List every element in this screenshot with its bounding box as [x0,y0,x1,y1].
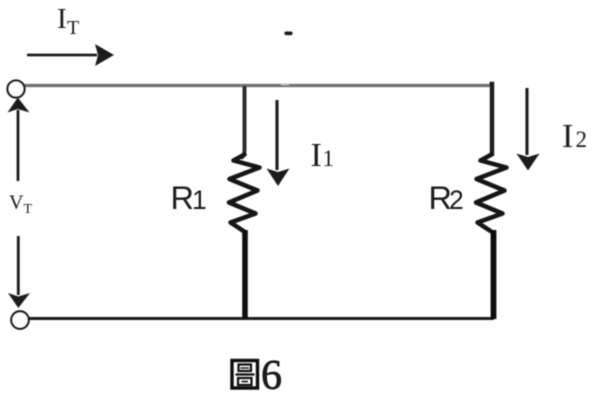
caption text 6 [261,353,282,399]
svg-text:I: I [57,3,67,35]
svg-text:V: V [9,192,24,214]
voltage arrow VT (double-headed) [8,98,31,309]
svg-text:R: R [171,180,194,216]
label R1 [171,180,207,216]
terminal: bottom-left node [11,311,28,328]
svg-text:6: 6 [261,353,282,399]
label I1 [311,137,335,174]
terminal: top-left node [8,81,25,98]
wire: R2 branch corner from top bus [490,84,493,156]
label I2 [562,118,587,155]
svg-text:1: 1 [192,185,207,215]
label VT [9,192,33,218]
resistor R2 (hand-drawn zigzag) [476,155,507,320]
label IT [57,3,79,39]
svg-text:1: 1 [323,146,335,171]
svg-text:2: 2 [576,127,588,152]
wire: top bus (gray) [24,83,492,87]
svg-text:2: 2 [449,185,464,215]
wire: bottom return [29,317,494,320]
caption glyph 圖 (drawn strokes) [232,361,258,389]
svg-text:T: T [24,202,33,217]
minus mark (top middle) [285,32,293,36]
resistor R1 (hand-drawn zigzag) [229,155,260,320]
wire: R1 branch from top bus [241,86,245,158]
svg-text:T: T [67,17,79,39]
current arrow I2 [517,88,540,171]
svg-text:I: I [311,137,322,174]
current arrow I1 [267,100,290,186]
current arrow IT [27,44,114,66]
label R2 [429,180,464,216]
svg-text:I: I [562,118,573,155]
